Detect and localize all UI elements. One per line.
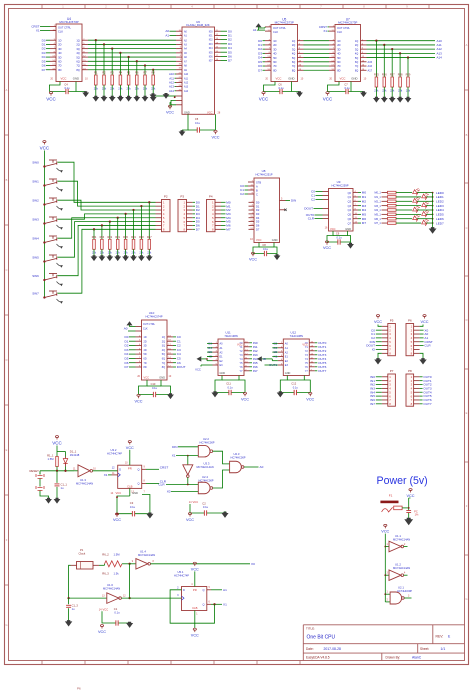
svg-text:SW2: SW2	[32, 198, 39, 202]
latch U5 body	[271, 25, 298, 82]
svg-text:VCC: VCC	[144, 375, 150, 379]
svg-text:6Q: 6Q	[76, 60, 79, 64]
svg-text:7Q: 7Q	[355, 64, 358, 68]
svg-text:8Q: 8Q	[355, 68, 358, 72]
svg-text:X1: X1	[36, 29, 40, 33]
svg-text:VCC: VCC	[195, 368, 201, 372]
U8 decoupling loop	[253, 243, 259, 254]
svg-text:A1: A1	[223, 588, 227, 592]
svg-text:E: E	[6, 448, 8, 452]
svg-text:CLK: CLK	[58, 29, 63, 33]
svg-text:CLR: CLR	[308, 217, 315, 221]
U11 port arrow E2	[197, 356, 202, 361]
svg-text:VCC: VCC	[166, 111, 174, 115]
svg-text:X1: X1	[223, 602, 227, 606]
svg-text:7D: 7D	[273, 64, 276, 68]
svg-text:6Q: 6Q	[355, 60, 358, 64]
capacitor C1_3	[68, 598, 70, 604]
svg-text:2017-08-28: 2017-08-28	[324, 647, 341, 651]
U7 decoupling loop	[328, 82, 340, 92]
svg-text:2D: 2D	[273, 43, 276, 47]
svg-text:DIN: DIN	[172, 445, 177, 449]
svg-text:SW7: SW7	[32, 291, 39, 295]
svg-text:R8: R8	[152, 71, 156, 75]
svg-text:M7: M7	[226, 227, 231, 231]
svg-text:MC74HC573P: MC74HC573P	[338, 20, 357, 24]
ground below R4	[119, 85, 121, 97]
svg-text:R28: R28	[398, 73, 403, 77]
junction dot R29 tap	[407, 56, 409, 58]
svg-text:U8: U8	[262, 169, 266, 173]
svg-text:IN7: IN7	[253, 369, 258, 373]
ground below U11	[211, 391, 218, 397]
svg-text:1D: 1D	[273, 39, 276, 43]
junction dot R3 tap	[111, 47, 113, 49]
svg-text:C5: C5	[195, 117, 199, 121]
wire R25 vertical	[375, 41, 377, 77]
svg-text:R6: R6	[135, 71, 139, 75]
svg-text:VCC: VCC	[256, 238, 262, 242]
svg-text:HC74HC00P: HC74HC00P	[231, 456, 246, 460]
svg-text:VCC: VCC	[98, 630, 106, 634]
svg-text:A: A	[256, 184, 258, 188]
svg-text:D: D	[183, 588, 185, 592]
ground below R5	[128, 85, 130, 97]
svg-text:U10: U10	[149, 311, 155, 315]
wire U1.3 to U3.2 D	[93, 470, 118, 472]
switch supply rail wire	[43, 151, 45, 298]
svg-text:A17: A17	[368, 68, 373, 72]
ground at C5 loop	[181, 130, 183, 132]
U10 decoupling loop	[139, 380, 148, 395]
svg-text:2Q: 2Q	[162, 340, 165, 343]
junction dot R8 tap	[152, 69, 154, 71]
svg-text:5D: 5D	[58, 55, 61, 59]
svg-text:R24: R24	[92, 236, 97, 239]
junction LED4	[432, 209, 434, 211]
svg-text:5D: 5D	[337, 56, 340, 60]
svg-text:2Q: 2Q	[292, 43, 295, 47]
svg-text:7D: 7D	[58, 64, 61, 68]
wire R28 vertical	[399, 53, 401, 77]
svg-text:VCC: VCC	[323, 97, 333, 102]
svg-text:VCC: VCC	[191, 633, 199, 637]
svg-text:5D: 5D	[273, 56, 276, 60]
svg-text:P8: P8	[408, 369, 412, 373]
ground below R20	[125, 249, 127, 256]
svg-text:1.5M: 1.5M	[114, 553, 121, 557]
wire resistor to LED6	[396, 218, 412, 220]
svg-text:0.1u: 0.1u	[263, 247, 269, 251]
NAND U2.1 spare	[384, 593, 386, 595]
svg-text:VCC: VCC	[249, 258, 257, 262]
svg-text:R1_1: R1_1	[47, 453, 54, 457]
svg-text:D4: D4	[256, 216, 260, 220]
ground below R7	[144, 85, 146, 97]
capacitor C12	[293, 390, 295, 395]
svg-text:8D: 8D	[337, 68, 340, 72]
spare gate supply rail	[384, 534, 386, 602]
svg-text:P4: P4	[209, 195, 213, 199]
junction dot R23 tap	[101, 224, 103, 226]
wire R6 vertical	[136, 61, 138, 75]
svg-text:GND: GND	[132, 491, 138, 495]
ground below R2	[103, 85, 105, 97]
wire R3 vertical	[111, 49, 113, 75]
svg-text:4D: 4D	[144, 349, 147, 352]
svg-text:IO: IO	[372, 348, 376, 352]
wire U6 WE to VCC	[171, 100, 176, 104]
svg-text:0.1u: 0.1u	[336, 236, 342, 240]
ground below P6	[420, 353, 423, 359]
VCC above P5	[378, 325, 382, 327]
wire reset node	[56, 467, 58, 471]
wire U6 CE to ground	[166, 95, 176, 97]
ground below U3.2 loop	[146, 512, 153, 518]
svg-text:2D: 2D	[144, 340, 147, 343]
P7 input labels IN0-IN7	[376, 376, 382, 378]
junction dot R5 tap	[127, 56, 129, 58]
wire P1 pin1 down	[69, 565, 71, 598]
svg-text:VCC: VCC	[113, 518, 121, 522]
wire R17 vertical	[148, 202, 150, 239]
wire R18 vertical	[140, 206, 142, 239]
switch SW2 actuator arrow	[57, 206, 62, 209]
ground right of C1 loop	[126, 622, 133, 628]
svg-text:D7: D7	[256, 227, 260, 231]
svg-text:VCC: VCC	[406, 494, 414, 498]
svg-text:VCC: VCC	[374, 320, 382, 324]
svg-text:8Q: 8Q	[76, 68, 79, 72]
junction dot R27 tap	[391, 48, 393, 50]
svg-text:DIN: DIN	[291, 199, 296, 203]
ground below P5	[378, 353, 382, 359]
ground below R17	[148, 249, 150, 256]
svg-text:PR: PR	[128, 467, 132, 471]
wire LED5 to common	[426, 213, 433, 215]
svg-text:VCC: VCC	[340, 77, 346, 81]
svg-text:TITLE:: TITLE:	[306, 627, 315, 631]
svg-text:GND: GND	[184, 111, 190, 115]
svg-text:7Q: 7Q	[162, 362, 165, 365]
svg-text:2Q: 2Q	[355, 43, 358, 47]
ground below U12	[277, 391, 284, 397]
junction dot R28 tap	[399, 52, 401, 54]
svg-text:GND: GND	[220, 372, 226, 375]
ground below R23	[101, 249, 103, 256]
svg-text:1u: 1u	[61, 486, 64, 490]
svg-text:6Q: 6Q	[162, 358, 165, 361]
svg-text:VCC: VCC	[211, 136, 219, 140]
ground below U7	[360, 91, 367, 97]
svg-text:D: D	[119, 467, 121, 471]
svg-text:0.1u: 0.1u	[227, 386, 233, 390]
wire R7 vertical	[144, 66, 146, 75]
svg-text:MC74HC14AN: MC74HC14AN	[76, 481, 93, 485]
svg-text:U9: U9	[337, 180, 341, 184]
svg-text:AlanC: AlanC	[412, 656, 422, 660]
flip-flop U1.1 body	[182, 587, 207, 611]
svg-text:VCC: VCC	[276, 77, 282, 81]
P6 output labels	[420, 329, 424, 331]
junction LED2	[432, 200, 434, 202]
svg-text:B: B	[6, 178, 8, 182]
capacitor PC	[406, 511, 411, 513]
junction LED6	[432, 218, 434, 220]
wire VCC to R1_1 and D1_1	[56, 446, 58, 457]
svg-text:GND: GND	[345, 227, 351, 231]
svg-text:1.5M: 1.5M	[48, 457, 55, 461]
svg-text:OUT7: OUT7	[318, 369, 327, 373]
svg-text:4Q: 4Q	[76, 51, 79, 55]
U6 data output pins with labels D0-D7	[215, 30, 221, 32]
svg-text:4Q: 4Q	[162, 349, 165, 352]
svg-text:Drawn By:: Drawn By:	[386, 656, 401, 660]
U1.1 feedback loop wire	[170, 590, 214, 623]
svg-text:GND: GND	[159, 375, 165, 379]
resistor R6_2 zigzag	[99, 564, 105, 566]
svg-text:IN7: IN7	[370, 402, 375, 406]
svg-text:2D: 2D	[58, 43, 61, 47]
svg-text:SW6: SW6	[32, 274, 39, 278]
svg-text:D7: D7	[228, 59, 232, 63]
data bus wires U5 to U7	[298, 40, 304, 42]
wire SW6 to P2	[58, 225, 156, 275]
ground below U8	[276, 254, 278, 256]
svg-text:VCC: VCC	[193, 500, 199, 504]
svg-text:X1: X1	[323, 29, 327, 33]
svg-text:D2: D2	[256, 208, 260, 212]
address bus A2-A9 wires U4 to U6	[88, 39, 176, 41]
capacitor C8	[263, 251, 265, 256]
svg-text:1D: 1D	[58, 38, 61, 42]
svg-text:C8: C8	[262, 243, 266, 247]
U8 output Y to DIN	[280, 200, 286, 202]
svg-text:U2.1: U2.1	[398, 586, 404, 590]
svg-text:C4: C4	[64, 82, 68, 86]
svg-text:U5.1: U5.1	[178, 570, 184, 574]
svg-text:D: D	[466, 318, 468, 322]
inverter U1.1 spare	[384, 546, 386, 548]
svg-text:D7: D7	[42, 68, 46, 72]
latch U4 body	[56, 24, 82, 82]
switch S2 box	[394, 506, 402, 510]
svg-text:8D: 8D	[273, 68, 276, 72]
connector P5	[388, 324, 396, 356]
svg-text:GND: GND	[272, 238, 278, 242]
wire resistor to LED1	[396, 196, 421, 198]
svg-text:0.1u: 0.1u	[114, 611, 120, 615]
svg-text:7D: 7D	[144, 362, 147, 365]
wire R21 vertical	[117, 218, 119, 240]
svg-text:4D: 4D	[58, 51, 61, 55]
svg-text:D1_1: D1_1	[70, 449, 77, 453]
svg-text:U1.4: U1.4	[140, 550, 146, 554]
svg-text:C: C	[466, 226, 468, 230]
LED series resistor R16	[382, 222, 388, 224]
svg-text:3Q: 3Q	[76, 47, 79, 51]
switch SW1 actuator arrow	[57, 187, 62, 190]
U12 output labels OUT0-OUT7	[315, 342, 318, 344]
sheet border zone ticks left	[5, 134, 9, 136]
ground below R24	[93, 249, 95, 256]
junction LED1	[432, 196, 434, 198]
wire R2 vertical	[103, 44, 105, 75]
svg-text:1Q: 1Q	[292, 39, 295, 43]
svg-text:U2.2: U2.2	[203, 437, 209, 441]
svg-text:X1: X1	[172, 454, 176, 458]
svg-text:IO: IO	[263, 357, 267, 361]
ground at U6 CE	[150, 93, 157, 99]
capacitor C7	[345, 89, 347, 94]
svg-text:3D: 3D	[58, 47, 61, 51]
svg-text:LED7: LED7	[436, 221, 444, 225]
svg-text:U1.6: U1.6	[107, 583, 113, 587]
U7 unused output stubs	[361, 61, 367, 63]
capacitor C10	[152, 392, 154, 397]
svg-text:1Q: 1Q	[76, 38, 79, 42]
svg-text:SW3: SW3	[32, 217, 39, 221]
svg-text:STB: STB	[256, 180, 261, 184]
svg-text:3D: 3D	[337, 47, 340, 51]
svg-text:A13: A13	[184, 86, 189, 89]
svg-text:74HC138N: 74HC138N	[224, 334, 237, 338]
svg-text:SW0: SW0	[32, 160, 39, 164]
U9 decoupling loop	[327, 231, 333, 242]
connector P3	[178, 200, 187, 232]
svg-text:R26: R26	[382, 73, 387, 77]
LED LED2	[413, 196, 420, 204]
sheet border zone ticks top	[41, 5, 43, 9]
svg-text:VCC: VCC	[259, 97, 269, 102]
svg-text:EasyEDA V4.8.5: EasyEDA V4.8.5	[306, 656, 330, 660]
wire U2.4 out to U2.3 in	[213, 470, 230, 488]
LED series resistor R12	[382, 205, 388, 207]
svg-text:VCC: VCC	[207, 111, 213, 115]
SRAM U6 body	[182, 27, 215, 114]
svg-text:D7: D7	[196, 227, 200, 231]
svg-text:C3: C3	[130, 501, 134, 505]
svg-text:C6: C6	[278, 82, 282, 86]
svg-text:R27: R27	[390, 73, 395, 77]
svg-text:R19: R19	[131, 236, 136, 239]
svg-text:MC74HC14AN: MC74HC14AN	[393, 538, 410, 542]
svg-text:M5_1: M5_1	[375, 213, 382, 216]
junction dot R7 tap	[144, 64, 146, 66]
svg-text:C1_1: C1_1	[61, 482, 68, 486]
LED LED5	[422, 209, 429, 217]
capacitor C2	[203, 510, 205, 515]
svg-text:U1.2: U1.2	[395, 563, 401, 567]
svg-text:0.1u: 0.1u	[293, 386, 299, 390]
U1.6 power loop with C1	[102, 611, 130, 623]
ground below C1_3	[65, 620, 72, 626]
capacitor C4	[49, 91, 85, 93]
junction dot R19 tap	[132, 209, 134, 211]
U7 output wires to A10-A14 labels	[361, 40, 367, 42]
capacitor C3	[131, 511, 133, 516]
svg-text:R21: R21	[115, 236, 120, 239]
switch SW7 actuator arrow	[57, 299, 62, 302]
battery clip curve	[382, 507, 393, 512]
LED series resistor R11	[382, 200, 388, 202]
svg-text:7Q: 7Q	[76, 64, 79, 68]
svg-text:P7: P7	[390, 369, 394, 373]
wire resistor to LED7	[396, 222, 421, 224]
svg-text:Date:: Date:	[306, 647, 314, 651]
junction dot R24 tap	[93, 228, 95, 230]
svg-text:G: G	[465, 597, 467, 601]
svg-text:1D: 1D	[337, 39, 340, 43]
U4 output pins to address bus	[82, 39, 88, 41]
svg-text:VCC: VCC	[306, 398, 314, 402]
wire SW1 to P2	[58, 181, 156, 206]
svg-text:5Q: 5Q	[355, 56, 358, 60]
svg-text:REV:: REV:	[436, 635, 444, 639]
svg-text:A: A	[466, 43, 468, 47]
title block outline	[303, 625, 464, 661]
svg-text:C11: C11	[226, 382, 231, 386]
svg-text:HC74HC259P: HC74HC259P	[331, 184, 348, 188]
multiplexer U8 body	[254, 178, 280, 243]
svg-text:A1: A1	[253, 28, 257, 32]
switch SW4 actuator arrow	[57, 244, 62, 247]
svg-text:6D: 6D	[58, 60, 61, 64]
svg-text:0.1u: 0.1u	[278, 86, 284, 90]
battery bar	[380, 501, 398, 504]
svg-text:C: C	[6, 268, 8, 272]
svg-text:X0: X0	[251, 562, 255, 566]
wire R22 vertical	[109, 222, 111, 240]
push button contact 1	[36, 474, 44, 479]
svg-text:VCC: VCC	[46, 97, 56, 102]
ground below R21	[117, 249, 119, 256]
svg-text:1Q: 1Q	[162, 336, 165, 339]
svg-text:0.1u: 0.1u	[130, 505, 136, 509]
connector P7	[388, 374, 396, 406]
svg-text:4D: 4D	[337, 52, 340, 56]
svg-text:1/1: 1/1	[441, 647, 446, 651]
connector P4	[207, 200, 216, 232]
svg-text:0.1u: 0.1u	[195, 121, 201, 125]
svg-text:C1: C1	[114, 607, 118, 611]
LED series resistor R13	[382, 209, 388, 211]
wire R5 vertical	[128, 57, 130, 75]
junction dot R20 tap	[124, 213, 126, 215]
ground below U5	[296, 91, 303, 97]
svg-text:Q: Q	[202, 588, 204, 592]
svg-text:U3.3: U3.3	[204, 462, 210, 466]
svg-text:HC74HC574P: HC74HC574P	[145, 315, 162, 319]
svg-text:CLK: CLK	[143, 327, 148, 330]
svg-text:M1_1: M1_1	[375, 196, 382, 199]
svg-text:VCC: VCC	[61, 77, 67, 81]
svg-text:MC74HC14AN: MC74HC14AN	[393, 566, 410, 570]
svg-text:P5: P5	[390, 319, 394, 323]
connector P6	[406, 324, 414, 356]
decoder U12 body	[283, 339, 309, 376]
feedback wire oscillator	[129, 564, 131, 598]
svg-text:VCC: VCC	[116, 491, 122, 495]
LED series resistor R9	[382, 192, 388, 194]
svg-text:OUT7: OUT7	[423, 402, 432, 406]
svg-text:VCC: VCC	[323, 246, 331, 250]
wire resistor to LED4	[396, 209, 412, 211]
ground below U2 loop	[221, 512, 228, 518]
switch SW5 actuator arrow	[57, 263, 62, 266]
P4 output labels M0-M7	[221, 201, 226, 203]
svg-text:VCC: VCC	[381, 530, 389, 534]
